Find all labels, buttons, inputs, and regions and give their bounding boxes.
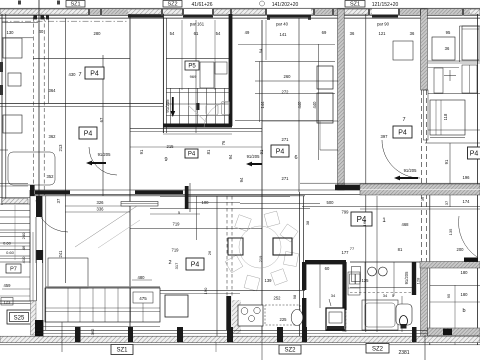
svg-text:9: 9 — [164, 157, 167, 163]
svg-text:36: 36 — [445, 46, 450, 51]
svg-text:91/205: 91/205 — [98, 152, 111, 157]
svg-text:SZ1: SZ1 — [350, 2, 360, 8]
main grid line x262 — [261, 20, 263, 334]
right unit line y61 — [428, 60, 480, 62]
line x320 mid — [319, 121, 321, 150]
svg-text:130: 130 — [7, 30, 15, 35]
svg-text:7: 7 — [402, 117, 405, 123]
room line x377 — [376, 196, 378, 332]
dark wall block bottom-left — [35, 320, 43, 342]
top-right box B — [462, 26, 479, 60]
svg-text:91/205: 91/205 — [404, 271, 409, 284]
line x190 door — [189, 183, 191, 212]
bottom wall line y333 — [36, 332, 430, 334]
shower inner — [365, 303, 395, 327]
window W1 mullion blocks — [33, 15, 37, 19]
line x46 living west — [45, 196, 47, 330]
staircase hatch band — [2, 199, 28, 204]
dark wall segment x303 y298 — [302, 298, 306, 332]
label box P4 big right — [351, 212, 372, 226]
dim line y147 — [130, 146, 262, 148]
dark wall segment y190 x135 — [135, 190, 183, 194]
cabinet line y288 — [348, 287, 360, 289]
thick wall y123 P5 south — [163, 124, 232, 128]
gray band y262 right — [420, 262, 480, 269]
window sill rect living — [121, 202, 158, 207]
dark wall post x30 y185 — [30, 185, 35, 196]
line x459 top-right — [459, 26, 461, 62]
left wardrobe box middle — [3, 115, 22, 133]
left table line y232 — [0, 232, 30, 234]
svg-text:81: 81 — [206, 149, 211, 154]
svg-text:500: 500 — [327, 200, 335, 205]
door arrow 91/205 mid-left — [90, 162, 106, 164]
top tick b — [57, 1, 60, 5]
wall line x299 upper — [298, 18, 300, 192]
left wall line x33 lower — [32, 232, 34, 301]
label box SZ1 bottom — [111, 345, 133, 355]
line y196 center — [160, 196, 290, 198]
svg-text:94: 94 — [239, 177, 244, 182]
right narrow box — [434, 68, 443, 93]
bath dashed line y292 — [350, 291, 416, 293]
svg-text:54: 54 — [258, 48, 263, 53]
frame 475 — [133, 292, 153, 303]
right room line y302 — [430, 301, 480, 303]
box D line b — [440, 100, 442, 135]
sink bowl a — [368, 267, 377, 276]
svg-text:799: 799 — [342, 210, 350, 215]
P5 light washbasin b — [222, 102, 230, 115]
sofa back gray line — [45, 286, 160, 288]
svg-text:par 40: par 40 — [276, 22, 289, 27]
dashed wall line x421 middle — [421, 90, 423, 262]
dashed duct line x232 — [231, 196, 233, 296]
sofa divider e — [142, 303, 144, 322]
svg-text:352: 352 — [47, 174, 55, 179]
top-right unit line y26 — [460, 25, 480, 27]
svg-text:480: 480 — [138, 275, 146, 280]
bold chair left — [228, 238, 243, 255]
P5 shower box — [200, 62, 214, 88]
box C center line — [469, 65, 471, 93]
short line y150 — [320, 149, 338, 151]
wall inner face y196 — [30, 195, 305, 197]
bath line x365 — [364, 262, 366, 330]
left line y289 — [2, 288, 30, 290]
top exterior wall hatched band — [0, 9, 480, 14]
label box P5 — [185, 61, 199, 70]
box D line a — [435, 100, 437, 135]
svg-text:26: 26 — [207, 250, 212, 255]
right room line y285 — [430, 284, 480, 286]
stove with burners — [238, 305, 263, 326]
sofa divider b — [104, 288, 106, 322]
svg-text:40: 40 — [39, 29, 44, 34]
label box P4 living — [186, 258, 204, 270]
tick line x62 bottom — [61, 322, 63, 352]
line x450 right — [449, 143, 451, 207]
gray hatched wall x338-344 — [338, 9, 345, 190]
P5 room west wall inner — [165, 18, 167, 133]
wall joint ticks on top band — [88, 9, 90, 16]
left room line y37 — [2, 37, 33, 39]
svg-text:200: 200 — [457, 247, 465, 252]
svg-text:213: 213 — [58, 144, 63, 152]
left wardrobe box top — [3, 38, 22, 58]
wardrobe box right b — [317, 93, 333, 123]
svg-text:54: 54 — [216, 31, 221, 36]
svg-text:271: 271 — [282, 176, 290, 181]
svg-text:P4: P4 — [470, 151, 479, 158]
line y293 center — [160, 293, 240, 295]
svg-text:252: 252 — [274, 296, 282, 301]
right unit line y143 — [425, 142, 480, 144]
top wall outer edge line — [0, 7, 480, 9]
right unit line y93 — [428, 93, 480, 95]
svg-text:317: 317 — [174, 262, 179, 269]
cabinet square b — [356, 274, 361, 284]
svg-text:215: 215 — [167, 144, 175, 149]
dim line y228 — [130, 227, 262, 229]
kitchen line x320 — [319, 262, 321, 308]
svg-text:141/202+20: 141/202+20 — [272, 2, 299, 8]
svg-text:SZ2: SZ2 — [372, 346, 384, 352]
bold chair right — [273, 238, 292, 255]
svg-text:SZ1: SZ1 — [116, 348, 128, 354]
wall line x299 lower — [299, 192, 301, 336]
svg-text:37: 37 — [444, 200, 449, 205]
bath box left — [352, 267, 361, 282]
P5 room west wall outer — [162, 14, 164, 133]
gray hatched wall x421-427 bottom — [421, 262, 428, 340]
sofa divider a — [67, 288, 69, 322]
P5 floor grid verticals — [170, 88, 172, 124]
left line y186 — [0, 185, 28, 187]
bath cabinet right of wall — [348, 272, 360, 295]
svg-text:P7: P7 — [10, 266, 17, 272]
label box SZ2 bottom a — [279, 345, 301, 354]
toilet — [396, 304, 412, 325]
svg-text:362: 362 — [49, 134, 57, 139]
svg-text:98: 98 — [292, 294, 297, 299]
svg-text:100: 100 — [202, 200, 210, 205]
svg-text:180: 180 — [461, 270, 469, 275]
right edge wall line — [477, 14, 479, 345]
svg-text:par 90: par 90 — [377, 22, 390, 27]
dashed grid line x44 — [43, 17, 45, 195]
svg-text:410: 410 — [21, 256, 26, 263]
svg-text:par 161: par 161 — [190, 22, 205, 27]
svg-text:166: 166 — [362, 219, 367, 226]
P5 light washbasin a — [206, 105, 218, 116]
dining table round with chairs (light) — [225, 211, 298, 291]
window W2 dark bar — [128, 15, 163, 18]
tick near 34 — [329, 299, 331, 306]
label box P4 small center — [185, 149, 198, 158]
door arrow 91/205 right — [398, 177, 418, 179]
right box C — [462, 65, 477, 93]
wall line x303 — [302, 196, 304, 336]
svg-text:196: 196 — [463, 175, 471, 180]
line y208 — [150, 208, 310, 210]
tick line x425 bottom — [424, 335, 426, 360]
svg-text:271: 271 — [282, 137, 290, 142]
gray hatch wall x343 lower — [342, 310, 346, 332]
svg-text:475: 475 — [139, 296, 147, 301]
dark wall y260 kitchen — [305, 260, 346, 264]
window W4 band gap + dark bar — [267, 9, 311, 15]
right unit line y67 — [428, 67, 459, 69]
staircase steps — [0, 197, 30, 199]
top-right box A — [432, 37, 455, 60]
svg-text:719: 719 — [173, 222, 181, 227]
svg-text:144: 144 — [260, 101, 265, 109]
svg-text:P4: P4 — [90, 71, 99, 78]
svg-text:0.60: 0.60 — [6, 250, 15, 255]
svg-text:P4: P4 — [191, 262, 200, 269]
bedroom line y93 — [255, 92, 335, 94]
rounded rug left room — [8, 152, 55, 185]
svg-text:2: 2 — [168, 260, 171, 266]
svg-text:91: 91 — [139, 149, 144, 154]
bath line y287 — [350, 287, 416, 289]
top band denser segment c — [400, 9, 470, 14]
wall y183 line right — [300, 182, 480, 184]
svg-text:468: 468 — [402, 222, 410, 227]
box B inner line — [462, 28, 479, 30]
svg-text:P4: P4 — [188, 152, 196, 158]
door arc hall west — [36, 200, 68, 232]
svg-text:6: 6 — [294, 155, 297, 161]
svg-text:61: 61 — [194, 31, 199, 36]
svg-text:P5: P5 — [188, 64, 196, 70]
svg-text:362: 362 — [90, 328, 95, 335]
svg-text:969: 969 — [190, 74, 197, 79]
P5 floor grid horizontals — [166, 87, 230, 89]
svg-text:440: 440 — [297, 101, 302, 109]
dashed duct line x227 — [226, 196, 228, 296]
svg-text:94: 94 — [228, 154, 233, 159]
door arc room P4 mid-left — [89, 147, 117, 175]
wall line y301 left — [0, 300, 36, 302]
label box P4 center — [271, 145, 289, 157]
top band denser segment b — [313, 9, 338, 14]
svg-text:180: 180 — [461, 292, 469, 297]
svg-text:141: 141 — [280, 32, 288, 37]
left table line y246 — [0, 245, 30, 247]
main wall line x130 — [129, 14, 131, 340]
door arc P5 south — [204, 102, 230, 128]
line y206 right — [302, 206, 480, 208]
left edge dark mark — [0, 85, 3, 95]
svg-text:36: 36 — [410, 31, 415, 36]
sofa outline — [45, 288, 160, 322]
left line y296 — [0, 295, 30, 297]
wall line x318 — [318, 44, 320, 160]
svg-text:260: 260 — [284, 74, 292, 79]
wardrobe box right a — [317, 66, 333, 89]
top tick a — [18, 1, 21, 5]
label box P4 far right — [468, 147, 480, 159]
dark wall segment x303 y262 — [302, 262, 306, 290]
left wall line x30 lower — [29, 232, 31, 301]
line y202 center — [188, 202, 240, 204]
svg-text:719: 719 — [172, 248, 180, 253]
right unit line y130 — [428, 129, 480, 131]
door arrow 91/205 center — [250, 163, 262, 165]
wall line y131 — [130, 130, 262, 132]
label box P4 right room — [393, 126, 412, 138]
svg-text:37: 37 — [56, 198, 61, 203]
left small box — [8, 73, 21, 86]
dark duct block x228 bottom — [226, 296, 231, 330]
wall line x48 — [48, 17, 50, 103]
svg-text:38: 38 — [305, 220, 310, 225]
dim line y212 — [65, 211, 130, 213]
left exterior wall inner line — [5, 14, 7, 200]
svg-text:S25: S25 — [14, 316, 25, 322]
bottom outer line — [0, 344, 480, 346]
svg-text:121: 121 — [379, 31, 387, 36]
svg-text:240: 240 — [21, 232, 26, 239]
svg-text:135: 135 — [448, 228, 453, 235]
right unit box D — [430, 100, 465, 135]
room line y58 left — [33, 58, 130, 60]
dim line y44 — [238, 44, 335, 46]
svg-text:118: 118 — [443, 113, 448, 120]
bedroom rect top y60 — [255, 61, 335, 63]
dark wall corner x335 y185 — [335, 185, 362, 191]
P5 closet line x182 — [181, 20, 183, 90]
right unit line y137 — [430, 137, 465, 139]
section dash-dot line — [2, 20, 128, 22]
svg-text:177: 177 — [342, 250, 350, 255]
svg-text:219: 219 — [258, 255, 263, 262]
dashed counter rect — [265, 305, 300, 325]
P5 small box — [215, 62, 227, 74]
sofa divider d — [130, 288, 132, 322]
svg-text:34: 34 — [331, 293, 336, 298]
left room shelf line y22 — [2, 22, 38, 24]
svg-text:280: 280 — [94, 31, 102, 36]
sofa inner line a — [45, 307, 160, 309]
left line y277 — [0, 276, 30, 278]
right unit line y63 — [428, 62, 480, 64]
svg-text:60: 60 — [325, 266, 330, 271]
wall line y303 left — [0, 303, 36, 305]
sofa divider c — [117, 288, 119, 322]
table square living — [165, 295, 188, 317]
line x196 corridor — [196, 196, 198, 240]
wall line y103 — [0, 103, 163, 105]
dashed wall line x427 middle — [426, 90, 428, 262]
svg-text:336: 336 — [97, 207, 105, 212]
bottom wall dark posts — [75, 327, 81, 342]
svg-text:69: 69 — [322, 30, 327, 35]
wall line x366 — [365, 14, 367, 332]
svg-text:440: 440 — [312, 101, 317, 109]
bottom wall inner line — [36, 330, 430, 332]
dark wall post x36 y196 — [36, 196, 42, 217]
svg-text:326: 326 — [97, 200, 105, 205]
svg-text:P4: P4 — [276, 149, 285, 156]
svg-text:91/205: 91/205 — [404, 168, 417, 173]
wall line y106 — [0, 106, 163, 108]
washing machine — [326, 308, 345, 330]
svg-text:125: 125 — [362, 278, 370, 283]
grid line x39 — [38, 0, 40, 196]
svg-text:459: 459 — [4, 283, 12, 288]
sink bowl b — [378, 267, 387, 276]
wall y194 bottom line — [30, 193, 360, 195]
left edge dark mark b — [0, 62, 3, 72]
dark wall segment y190 x35 — [35, 190, 70, 194]
svg-text:139: 139 — [265, 278, 273, 283]
svg-text:36: 36 — [350, 31, 355, 36]
door jamb strip x424 — [424, 90, 429, 140]
bed box left — [48, 258, 88, 288]
svg-text:SZ2: SZ2 — [284, 348, 296, 354]
left table line y258 — [0, 258, 30, 260]
P5 dark mark — [197, 103, 200, 110]
label box P7 — [6, 264, 21, 273]
svg-text:34: 34 — [383, 293, 388, 298]
svg-text:36: 36 — [420, 196, 425, 201]
sofa inner line b — [45, 311, 160, 313]
diagonal guide lines living room — [75, 206, 137, 247]
svg-text:95: 95 — [446, 293, 451, 298]
svg-text:P4: P4 — [398, 130, 407, 137]
bath line x402 — [401, 296, 403, 332]
door arc right unit — [459, 216, 477, 257]
tick line x262 bottom — [261, 334, 263, 360]
dashed grid line x33 — [33, 17, 35, 195]
svg-text:SZ2: SZ2 — [167, 2, 177, 8]
small box 123 — [1, 298, 13, 306]
dim line y206 — [65, 205, 130, 207]
door arc right room — [382, 140, 420, 178]
wall y190 top line — [30, 189, 360, 191]
line x266 — [265, 20, 267, 60]
room divider wall x103 — [102, 55, 104, 196]
bottom-right gray band — [428, 328, 480, 336]
window W3 band gap + dark bar — [183, 9, 213, 15]
svg-text:272: 272 — [282, 90, 290, 95]
svg-text:81: 81 — [398, 247, 403, 252]
P5 closet line x215 — [214, 20, 216, 90]
svg-text:0.60: 0.60 — [3, 241, 12, 246]
hatched strip x30 bottom-left — [31, 301, 37, 335]
svg-text:91/205: 91/205 — [165, 99, 170, 113]
bath corridor wall x217 — [216, 196, 218, 340]
top wall lower line — [0, 14, 480, 16]
thick interior wall x230 — [229, 14, 233, 126]
line y121 right — [262, 120, 338, 122]
oval fixture kitchen — [291, 310, 303, 326]
dim text 141/202+20 with circle mark — [260, 1, 265, 6]
P5 closet bottom y58 — [166, 58, 229, 60]
left line y183 — [0, 183, 28, 185]
box below window right — [393, 41, 413, 60]
label box P4 top-left — [85, 67, 104, 79]
svg-text:41/61+26: 41/61+26 — [192, 2, 213, 8]
line y326 — [40, 326, 160, 328]
P5 entry arrow — [172, 97, 174, 113]
svg-text:241: 241 — [58, 250, 63, 258]
cross tick right unit — [444, 75, 456, 77]
tick line x216 bottom — [215, 342, 217, 352]
